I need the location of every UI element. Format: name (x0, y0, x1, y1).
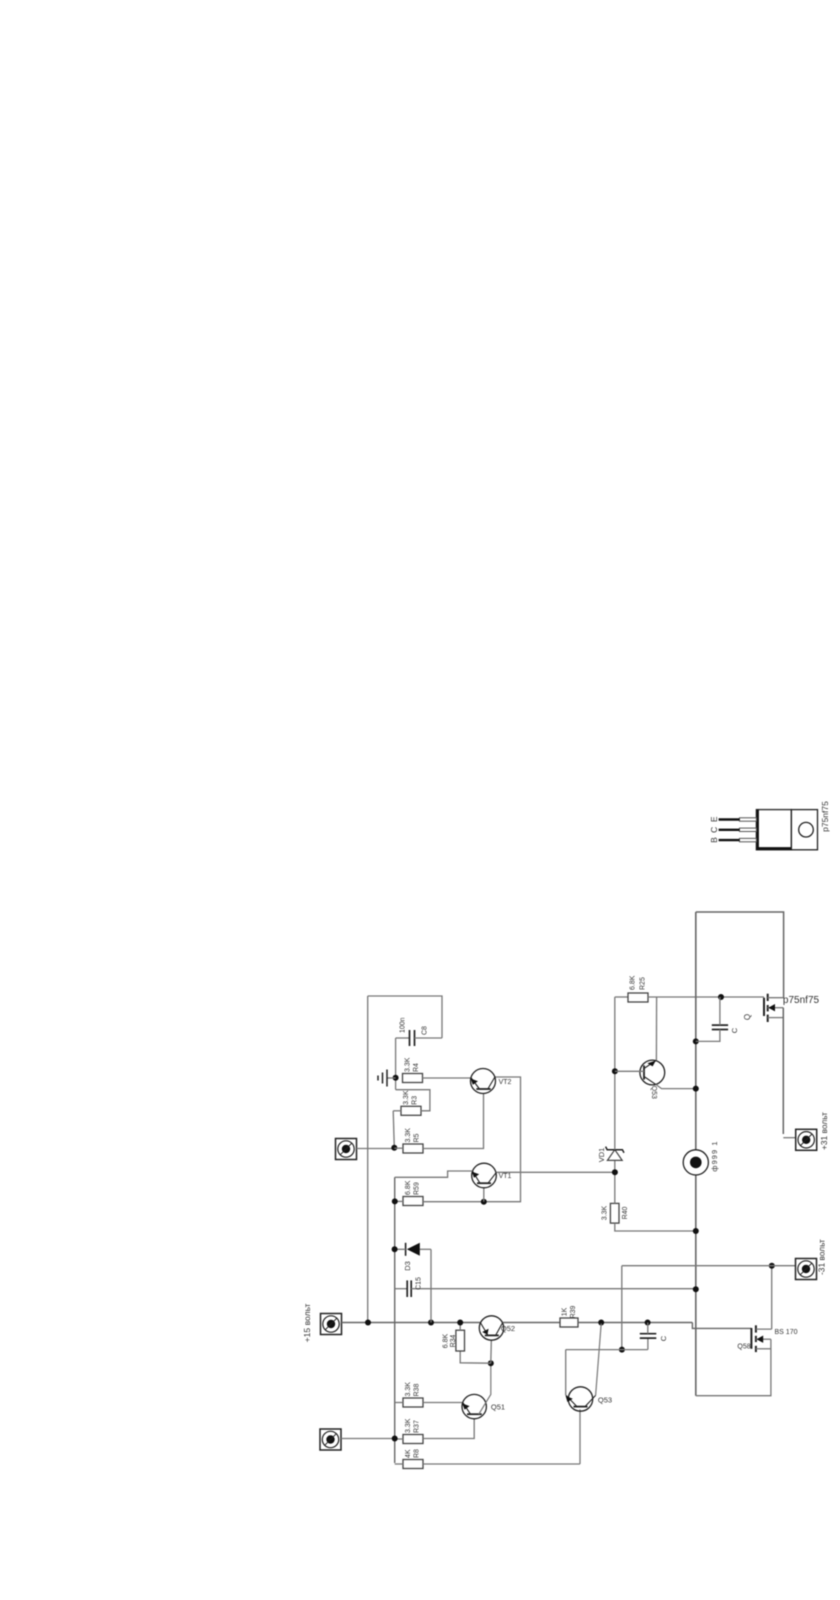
svg-text:3.3K: 3.3K (403, 1090, 410, 1105)
svg-text:R5: R5 (414, 1133, 421, 1142)
svg-text:R59: R59 (414, 1182, 421, 1195)
svg-text:R25: R25 (640, 977, 647, 990)
svg-text:+15 вольт: +15 вольт (302, 1304, 312, 1343)
svg-text:BS 170: BS 170 (775, 1329, 798, 1336)
svg-text:6.8K: 6.8K (405, 1180, 412, 1195)
svg-text:R3: R3 (412, 1096, 419, 1105)
svg-text:3.3K: 3.3K (404, 1057, 411, 1072)
svg-text:Q51: Q51 (491, 1403, 505, 1412)
svg-text:C: C (730, 1027, 739, 1033)
svg-text:3.3K: 3.3K (405, 1382, 412, 1397)
svg-text:p75nf75: p75nf75 (783, 995, 820, 1006)
svg-text:1K: 1K (562, 1307, 569, 1316)
svg-text:3.3K: 3.3K (602, 1205, 609, 1220)
svg-text:E: E (709, 816, 719, 822)
svg-text:100n: 100n (400, 1017, 407, 1033)
svg-text:R37: R37 (414, 1420, 421, 1433)
svg-text:4K: 4K (405, 1449, 412, 1458)
svg-text:D3: D3 (403, 1261, 412, 1271)
svg-text:C: C (709, 827, 719, 833)
svg-text:6.8K: 6.8K (630, 975, 637, 990)
svg-text:R38: R38 (414, 1384, 421, 1397)
svg-text:VT1: VT1 (499, 1173, 512, 1180)
svg-text:Q58: Q58 (737, 1343, 750, 1350)
svg-text:R8: R8 (414, 1449, 421, 1458)
svg-text:VD1: VD1 (597, 1148, 606, 1163)
svg-text:R39: R39 (570, 1305, 577, 1318)
svg-text:+31 вольт: +31 вольт (819, 1112, 829, 1150)
svg-text:3.3K: 3.3K (405, 1128, 412, 1143)
svg-text:C15: C15 (416, 1277, 423, 1290)
svg-text:R40: R40 (622, 1206, 629, 1219)
svg-text:-31 вольт: -31 вольт (817, 1239, 827, 1275)
svg-text:VT2: VT2 (499, 1079, 512, 1086)
svg-text:6.8K: 6.8K (443, 1333, 450, 1348)
svg-text:ф999 1: ф999 1 (710, 1140, 719, 1171)
svg-text:R4: R4 (413, 1063, 420, 1072)
svg-text:C: C (659, 1335, 668, 1341)
svg-text:Q53: Q53 (598, 1396, 612, 1405)
svg-text:Q: Q (743, 1014, 752, 1020)
svg-text:Q53: Q53 (650, 1086, 657, 1099)
svg-text:3.3K: 3.3K (405, 1418, 412, 1433)
svg-text:B: B (709, 837, 719, 843)
svg-text:C8: C8 (422, 1026, 429, 1035)
svg-text:p75nf75: p75nf75 (820, 801, 830, 832)
svg-text:R34: R34 (450, 1334, 457, 1347)
svg-text:Q52: Q52 (501, 1324, 515, 1333)
